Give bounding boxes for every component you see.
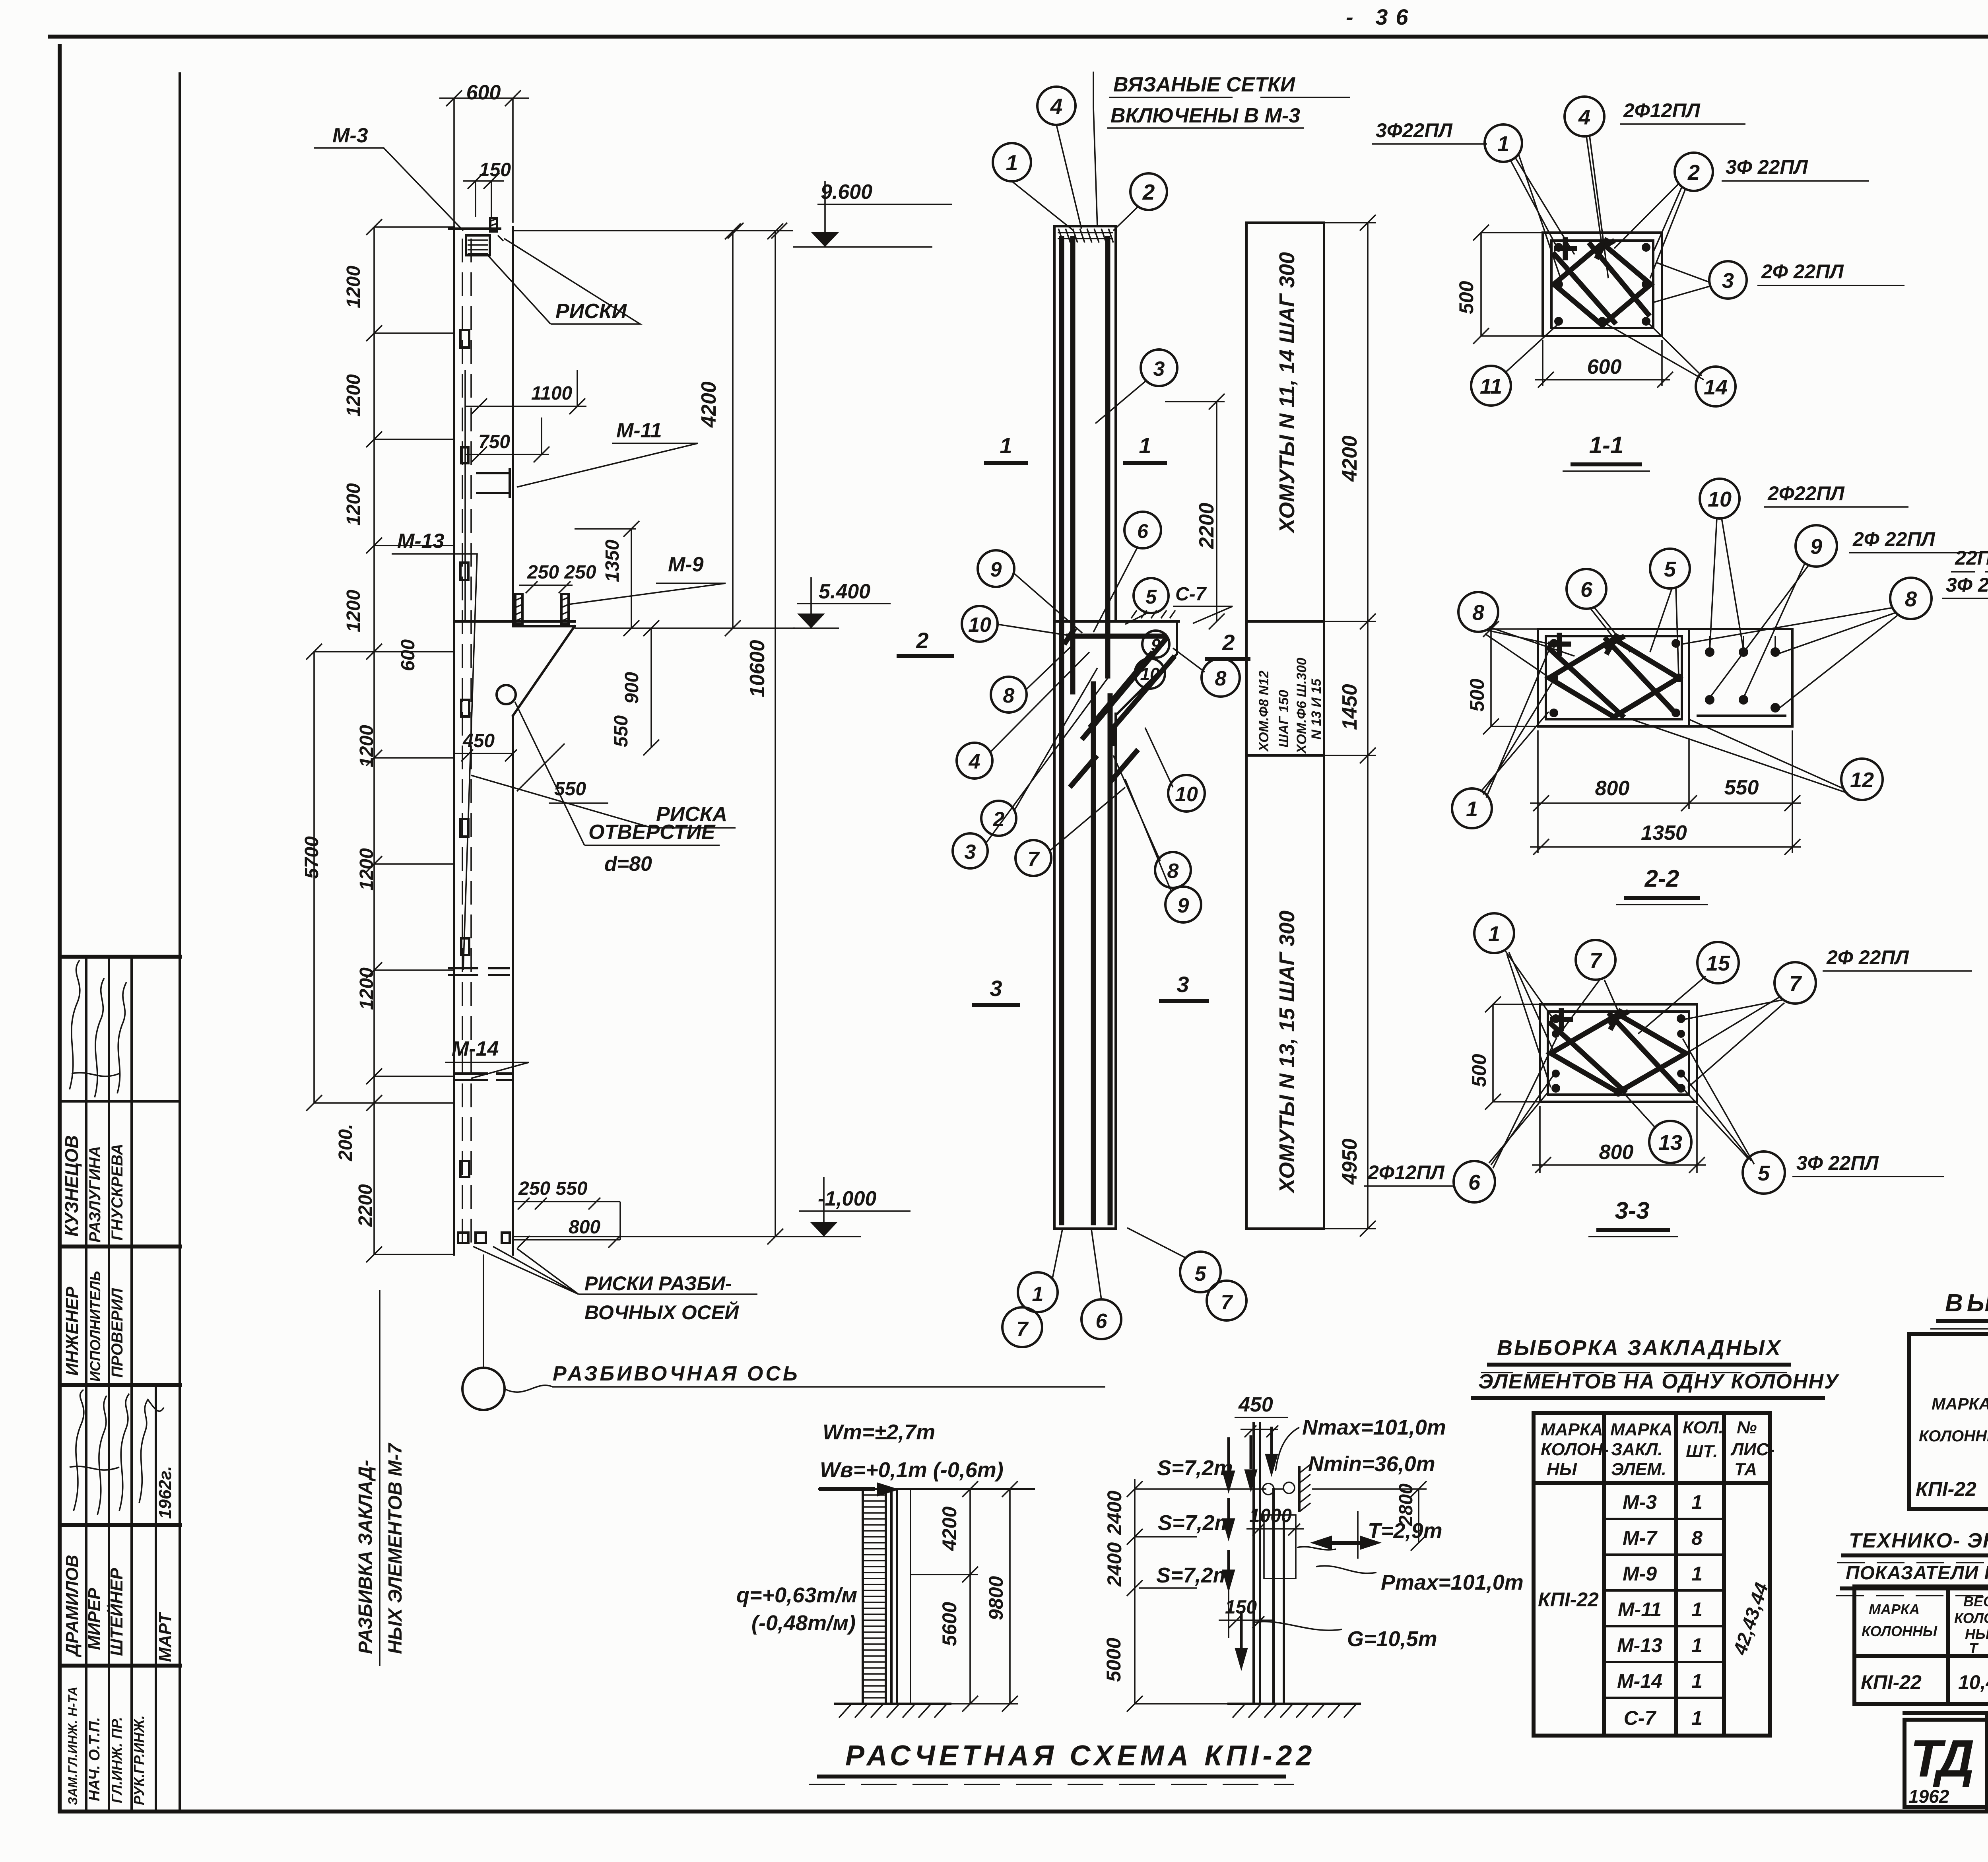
svg-text:450: 450 xyxy=(1238,1393,1273,1416)
svg-text:ШАГ 150: ШАГ 150 xyxy=(1276,690,1291,748)
svg-text:42,43,44: 42,43,44 xyxy=(1730,1580,1773,1658)
svg-text:ГНУСКРЕВА: ГНУСКРЕВА xyxy=(109,1144,126,1241)
svg-text:МИРЕР: МИРЕР xyxy=(85,1588,104,1650)
svg-text:1: 1 xyxy=(1691,1563,1703,1585)
svg-text:3: 3 xyxy=(990,976,1002,1001)
svg-text:8: 8 xyxy=(1215,667,1227,690)
svg-text:8: 8 xyxy=(1691,1527,1703,1549)
svg-text:10,4: 10,4 xyxy=(1958,1671,1988,1693)
svg-text:750: 750 xyxy=(478,431,510,452)
svg-text:1: 1 xyxy=(1691,1707,1703,1729)
svg-text:ШТЕЙНЕР: ШТЕЙНЕР xyxy=(106,1568,126,1656)
svg-text:Nmax=101,0т: Nmax=101,0т xyxy=(1302,1415,1446,1439)
svg-text:1-1: 1-1 xyxy=(1589,432,1624,458)
svg-text:НАЧ. О.Т.П.: НАЧ. О.Т.П. xyxy=(86,1717,103,1801)
svg-text:1350: 1350 xyxy=(1641,821,1687,845)
svg-text:10: 10 xyxy=(1708,487,1732,511)
svg-text:ВЫБОРКА ЗАКЛАДНЫХ: ВЫБОРКА ЗАКЛАДНЫХ xyxy=(1497,1336,1782,1360)
svg-text:1: 1 xyxy=(1466,797,1478,821)
svg-text:1: 1 xyxy=(1139,433,1151,458)
svg-text:ВЫБОРКА СТАЛИ НА ОДНУ КОЛОН: ВЫБОРКА СТАЛИ НА ОДНУ КОЛОННУ (КГ) xyxy=(1945,1289,1988,1317)
svg-text:РАЗБИВКА ЗАКЛАД-: РАЗБИВКА ЗАКЛАД- xyxy=(355,1460,376,1654)
svg-text:РИСКИ РАЗБИ-: РИСКИ РАЗБИ- xyxy=(584,1272,732,1295)
svg-text:6: 6 xyxy=(1096,1310,1108,1333)
svg-text:Nmin=36,0т: Nmin=36,0т xyxy=(1308,1452,1435,1476)
svg-text:М-14: М-14 xyxy=(452,1037,499,1060)
svg-text:5000: 5000 xyxy=(1103,1638,1125,1682)
svg-text:2: 2 xyxy=(1142,180,1155,204)
svg-text:5.400: 5.400 xyxy=(819,580,870,603)
svg-text:ОТВЕРСТИЕ: ОТВЕРСТИЕ xyxy=(588,821,716,844)
svg-text:НЫ: НЫ xyxy=(1547,1460,1577,1479)
svg-text:d=80: d=80 xyxy=(604,852,652,876)
svg-text:М-9: М-9 xyxy=(1623,1563,1657,1585)
svg-text:4: 4 xyxy=(1578,105,1590,129)
svg-text:РАЗБИВОЧНАЯ ОСЬ: РАЗБИВОЧНАЯ ОСЬ xyxy=(553,1362,800,1385)
svg-text:5: 5 xyxy=(1664,557,1676,581)
svg-text:С-7: С-7 xyxy=(1624,1707,1657,1729)
svg-text:8: 8 xyxy=(1003,684,1015,707)
svg-text:ЭЛЕМ.: ЭЛЕМ. xyxy=(1611,1460,1666,1479)
svg-text:10600: 10600 xyxy=(746,640,769,697)
svg-text:1200: 1200 xyxy=(356,725,377,767)
svg-text:М-11: М-11 xyxy=(1618,1598,1662,1621)
svg-text:ВОЧНЫХ ОСЕЙ: ВОЧНЫХ ОСЕЙ xyxy=(584,1301,739,1324)
svg-text:4200: 4200 xyxy=(938,1507,961,1551)
svg-text:КОЛОН-: КОЛОН- xyxy=(1541,1440,1609,1459)
svg-text:500: 500 xyxy=(1466,678,1488,712)
svg-text:9: 9 xyxy=(1810,535,1822,559)
svg-text:2200: 2200 xyxy=(1195,503,1218,549)
svg-text:№: № xyxy=(1737,1418,1757,1437)
svg-text:S=7,2т: S=7,2т xyxy=(1158,1511,1234,1535)
svg-text:2Ф 22ПЛ: 2Ф 22ПЛ xyxy=(1761,260,1844,283)
svg-text:9: 9 xyxy=(990,558,1002,581)
svg-text:7: 7 xyxy=(1028,848,1040,871)
svg-text:КУЗНЕЦОВ: КУЗНЕЦОВ xyxy=(61,1135,82,1237)
svg-text:7: 7 xyxy=(1017,1318,1029,1341)
svg-text:ВКЛЮЧЕНЫ В М-3: ВКЛЮЧЕНЫ В М-3 xyxy=(1110,104,1300,127)
svg-text:800: 800 xyxy=(1595,777,1630,800)
svg-text:М-9: М-9 xyxy=(668,553,704,576)
svg-text:S=7,2т: S=7,2т xyxy=(1156,1563,1232,1587)
svg-text:ИНЖЕНЕР: ИНЖЕНЕР xyxy=(62,1286,82,1376)
svg-text:4200: 4200 xyxy=(697,381,720,428)
svg-text:ХОМУТЫ N 11, 14 ШАГ 300: ХОМУТЫ N 11, 14 ШАГ 300 xyxy=(1275,252,1299,534)
svg-text:7: 7 xyxy=(1221,1291,1233,1314)
svg-text:(-0,48т/м): (-0,48т/м) xyxy=(751,1611,856,1635)
svg-text:2Ф12ПЛ: 2Ф12ПЛ xyxy=(1623,99,1701,122)
svg-text:НЫ: НЫ xyxy=(1965,1626,1988,1642)
svg-text:5: 5 xyxy=(1758,1161,1770,1185)
svg-text:2Ф12ПЛ: 2Ф12ПЛ xyxy=(1367,1161,1445,1184)
svg-text:1000: 1000 xyxy=(1249,1505,1292,1526)
svg-text:10: 10 xyxy=(1175,783,1198,806)
svg-text:РУК.ГР.ИНЖ.: РУК.ГР.ИНЖ. xyxy=(131,1715,147,1805)
svg-text:22ПЛ: 22ПЛ xyxy=(1955,547,1988,569)
svg-text:1: 1 xyxy=(1497,132,1509,156)
svg-text:1100: 1100 xyxy=(531,383,573,404)
svg-text:НЫХ ЭЛЕМЕНТОВ М-7: НЫХ ЭЛЕМЕНТОВ М-7 xyxy=(385,1443,406,1654)
svg-text:КОЛ.: КОЛ. xyxy=(1683,1418,1724,1437)
svg-text:1200: 1200 xyxy=(356,848,377,891)
svg-text:МАРКА: МАРКА xyxy=(1869,1601,1920,1617)
svg-text:7: 7 xyxy=(1590,949,1603,973)
svg-text:G=10,5т: G=10,5т xyxy=(1347,1627,1437,1651)
svg-text:ИСПОЛНИТЕЛЬ: ИСПОЛНИТЕЛЬ xyxy=(87,1271,103,1382)
svg-text:9: 9 xyxy=(1178,894,1189,917)
svg-text:ТА: ТА xyxy=(1734,1460,1757,1479)
svg-text:1: 1 xyxy=(1691,1598,1703,1621)
svg-text:М-13: М-13 xyxy=(397,530,445,553)
svg-text:1200: 1200 xyxy=(343,590,364,632)
svg-text:ТЕХНИКО- ЭКОНОМИЧЕСКИЕ: ТЕХНИКО- ЭКОНОМИЧЕСКИЕ xyxy=(1849,1529,1988,1552)
svg-text:2: 2 xyxy=(1222,630,1235,655)
svg-text:900: 900 xyxy=(621,672,643,704)
svg-text:ПРОВЕРИЛ: ПРОВЕРИЛ xyxy=(109,1287,126,1378)
svg-text:1: 1 xyxy=(1691,1670,1703,1692)
svg-text:РАСЧЕТНАЯ СХЕМА КПI-22: РАСЧЕТНАЯ СХЕМА КПI-22 xyxy=(845,1740,1316,1772)
svg-text:1200: 1200 xyxy=(343,266,364,308)
svg-text:3: 3 xyxy=(965,841,976,864)
svg-text:9.600: 9.600 xyxy=(821,181,872,204)
svg-text:3-3: 3-3 xyxy=(1615,1197,1650,1224)
svg-text:3Ф22ПЛ: 3Ф22ПЛ xyxy=(1376,119,1453,142)
svg-text:- 36: - 36 xyxy=(1346,4,1416,29)
svg-text:8: 8 xyxy=(1905,587,1917,611)
svg-text:1: 1 xyxy=(1488,922,1500,946)
svg-text:1450: 1450 xyxy=(1338,684,1361,730)
svg-text:-1,000: -1,000 xyxy=(818,1187,877,1210)
svg-text:2: 2 xyxy=(1687,161,1700,184)
svg-text:М-3: М-3 xyxy=(1623,1491,1657,1513)
svg-text:250 250: 250 250 xyxy=(527,562,596,583)
svg-text:3Ф 22ПЛ: 3Ф 22ПЛ xyxy=(1726,156,1808,178)
svg-text:15: 15 xyxy=(1706,951,1730,975)
svg-text:2200: 2200 xyxy=(355,1184,376,1227)
svg-text:4950: 4950 xyxy=(1338,1138,1361,1185)
svg-text:S=7,2т: S=7,2т xyxy=(1157,1456,1233,1480)
svg-text:М-14: М-14 xyxy=(1617,1670,1662,1692)
svg-text:500: 500 xyxy=(1468,1054,1490,1087)
svg-text:600: 600 xyxy=(466,81,501,104)
svg-text:500: 500 xyxy=(1455,281,1477,314)
svg-text:q=+0,63т/м: q=+0,63т/м xyxy=(736,1583,857,1607)
svg-text:4: 4 xyxy=(969,750,980,773)
svg-text:1350: 1350 xyxy=(602,540,623,582)
svg-text:ШТ.: ШТ. xyxy=(1686,1442,1718,1461)
svg-text:М-7: М-7 xyxy=(1623,1527,1658,1549)
svg-text:9: 9 xyxy=(1151,635,1161,655)
svg-text:3Ф 22ПЛ: 3Ф 22ПЛ xyxy=(1946,574,1988,596)
svg-text:2400: 2400 xyxy=(1103,1542,1126,1587)
svg-text:МАРКА: МАРКА xyxy=(1610,1420,1673,1439)
svg-text:М-3: М-3 xyxy=(332,124,368,147)
svg-text:4200: 4200 xyxy=(1338,435,1361,482)
svg-text:1200: 1200 xyxy=(356,967,377,1010)
svg-text:КОЛОННЫ: КОЛОННЫ xyxy=(1862,1623,1938,1639)
svg-text:1200: 1200 xyxy=(343,374,364,417)
svg-text:Wв=+0,1т (-0,6т): Wв=+0,1т (-0,6т) xyxy=(820,1458,1004,1482)
svg-text:Pmax=101,0т: Pmax=101,0т xyxy=(1381,1571,1524,1594)
svg-text:10: 10 xyxy=(968,614,991,637)
svg-text:РИСКИ: РИСКИ xyxy=(555,300,627,323)
svg-text:5700: 5700 xyxy=(301,836,322,879)
svg-text:1200: 1200 xyxy=(343,483,364,526)
svg-text:ГЛ.ИНЖ. ПР.: ГЛ.ИНЖ. ПР. xyxy=(109,1717,125,1803)
svg-text:550: 550 xyxy=(1724,776,1759,799)
svg-text:ДРАМИЛОВ: ДРАМИЛОВ xyxy=(62,1555,82,1658)
svg-text:5: 5 xyxy=(1145,586,1157,608)
svg-text:М-11: М-11 xyxy=(616,419,662,442)
svg-text:10: 10 xyxy=(1140,664,1160,684)
svg-text:14: 14 xyxy=(1704,375,1728,399)
svg-text:1: 1 xyxy=(1000,433,1012,458)
svg-text:ЛИС-: ЛИС- xyxy=(1730,1440,1774,1459)
svg-text:6: 6 xyxy=(1580,578,1593,602)
svg-text:150: 150 xyxy=(479,159,511,181)
svg-text:550: 550 xyxy=(554,779,586,800)
svg-text:200.: 200. xyxy=(335,1124,356,1161)
svg-text:КПI-22: КПI-22 xyxy=(1538,1588,1599,1611)
svg-text:2400: 2400 xyxy=(1103,1491,1126,1535)
svg-text:МАРТ: МАРТ xyxy=(155,1612,175,1662)
svg-text:2800: 2800 xyxy=(1396,1483,1417,1526)
svg-text:600: 600 xyxy=(1587,355,1622,379)
svg-text:1962: 1962 xyxy=(1908,1786,1949,1807)
svg-text:550: 550 xyxy=(611,715,632,747)
svg-text:13: 13 xyxy=(1658,1131,1682,1155)
svg-text:3Ф 22ПЛ: 3Ф 22ПЛ xyxy=(1796,1152,1879,1174)
svg-text:1: 1 xyxy=(1691,1491,1703,1513)
svg-text:2Ф22ПЛ: 2Ф22ПЛ xyxy=(1767,482,1845,505)
svg-text:КПI-22: КПI-22 xyxy=(1916,1478,1976,1500)
svg-text:800: 800 xyxy=(569,1217,600,1238)
svg-text:С-7: С-7 xyxy=(1175,584,1207,605)
svg-text:150: 150 xyxy=(1225,1597,1257,1618)
svg-text:6: 6 xyxy=(1468,1171,1481,1194)
svg-text:ЭЛЕМЕНТОВ НА ОДНУ КОЛОННУ: ЭЛЕМЕНТОВ НА ОДНУ КОЛОННУ xyxy=(1478,1370,1840,1393)
svg-text:ВЯЗАНЫЕ СЕТКИ: ВЯЗАНЫЕ СЕТКИ xyxy=(1113,73,1296,96)
svg-text:12: 12 xyxy=(1850,768,1874,792)
svg-text:ТД: ТД xyxy=(1910,1729,1973,1788)
svg-text:4: 4 xyxy=(1050,94,1063,118)
svg-text:2-2: 2-2 xyxy=(1644,865,1679,892)
svg-text:5600: 5600 xyxy=(938,1602,961,1646)
svg-text:МАРКА: МАРКА xyxy=(1541,1420,1603,1439)
svg-text:1: 1 xyxy=(1691,1634,1703,1656)
svg-text:Т: Т xyxy=(1969,1640,1979,1656)
svg-text:М-13: М-13 xyxy=(1617,1634,1662,1656)
svg-text:6: 6 xyxy=(1137,520,1149,542)
svg-text:600: 600 xyxy=(398,639,419,671)
svg-text:ЗАМ.ГЛ.ИНЖ. Н-ТА: ЗАМ.ГЛ.ИНЖ. Н-ТА xyxy=(66,1687,80,1805)
svg-text:Wт=±2,7т: Wт=±2,7т xyxy=(823,1420,935,1444)
svg-text:1: 1 xyxy=(1006,150,1018,175)
svg-text:9800: 9800 xyxy=(985,1576,1007,1620)
svg-text:ХОМУТЫ N 13, 15 ШАГ 300: ХОМУТЫ N 13, 15 ШАГ 300 xyxy=(1275,911,1299,1194)
svg-text:ХОМ.Ф8 N12: ХОМ.Ф8 N12 xyxy=(1256,670,1272,752)
svg-text:1: 1 xyxy=(1032,1283,1044,1306)
svg-text:КПI-22: КПI-22 xyxy=(1861,1671,1922,1693)
svg-text:2Ф 22ПЛ: 2Ф 22ПЛ xyxy=(1826,946,1909,969)
svg-text:7: 7 xyxy=(1789,972,1802,996)
svg-text:2: 2 xyxy=(916,628,928,653)
svg-text:450: 450 xyxy=(462,730,495,751)
svg-text:3: 3 xyxy=(1176,972,1189,997)
svg-text:3: 3 xyxy=(1722,269,1734,293)
svg-text:3: 3 xyxy=(1153,357,1165,381)
svg-text:ЗАКЛ.: ЗАКЛ. xyxy=(1611,1440,1663,1459)
svg-text:5: 5 xyxy=(1195,1262,1207,1285)
svg-text:КОЛОННЫ: КОЛОННЫ xyxy=(1919,1427,1988,1445)
svg-text:8: 8 xyxy=(1167,860,1179,883)
svg-text:250 550: 250 550 xyxy=(518,1178,588,1199)
svg-text:1962г.: 1962г. xyxy=(155,1466,175,1519)
svg-text:МАРКА: МАРКА xyxy=(1932,1394,1988,1413)
svg-text:РАЗЛУГИНА: РАЗЛУГИНА xyxy=(86,1146,104,1243)
svg-text:8: 8 xyxy=(1472,601,1484,625)
svg-text:800: 800 xyxy=(1599,1141,1634,1164)
svg-text:ПОКАЗАТЕЛИ НА ОДНУ КОЛОННУ: ПОКАЗАТЕЛИ НА ОДНУ КОЛОННУ xyxy=(1846,1563,1988,1584)
svg-text:N 13 И 15: N 13 И 15 xyxy=(1309,678,1324,740)
svg-text:ХОМ.Ф6 Ш.300: ХОМ.Ф6 Ш.300 xyxy=(1294,658,1309,754)
svg-text:КОЛОН-: КОЛОН- xyxy=(1954,1610,1988,1626)
svg-text:2Ф 22ПЛ: 2Ф 22ПЛ xyxy=(1852,528,1936,550)
svg-text:11: 11 xyxy=(1480,375,1502,398)
svg-text:ВЕС: ВЕС xyxy=(1963,1593,1988,1610)
